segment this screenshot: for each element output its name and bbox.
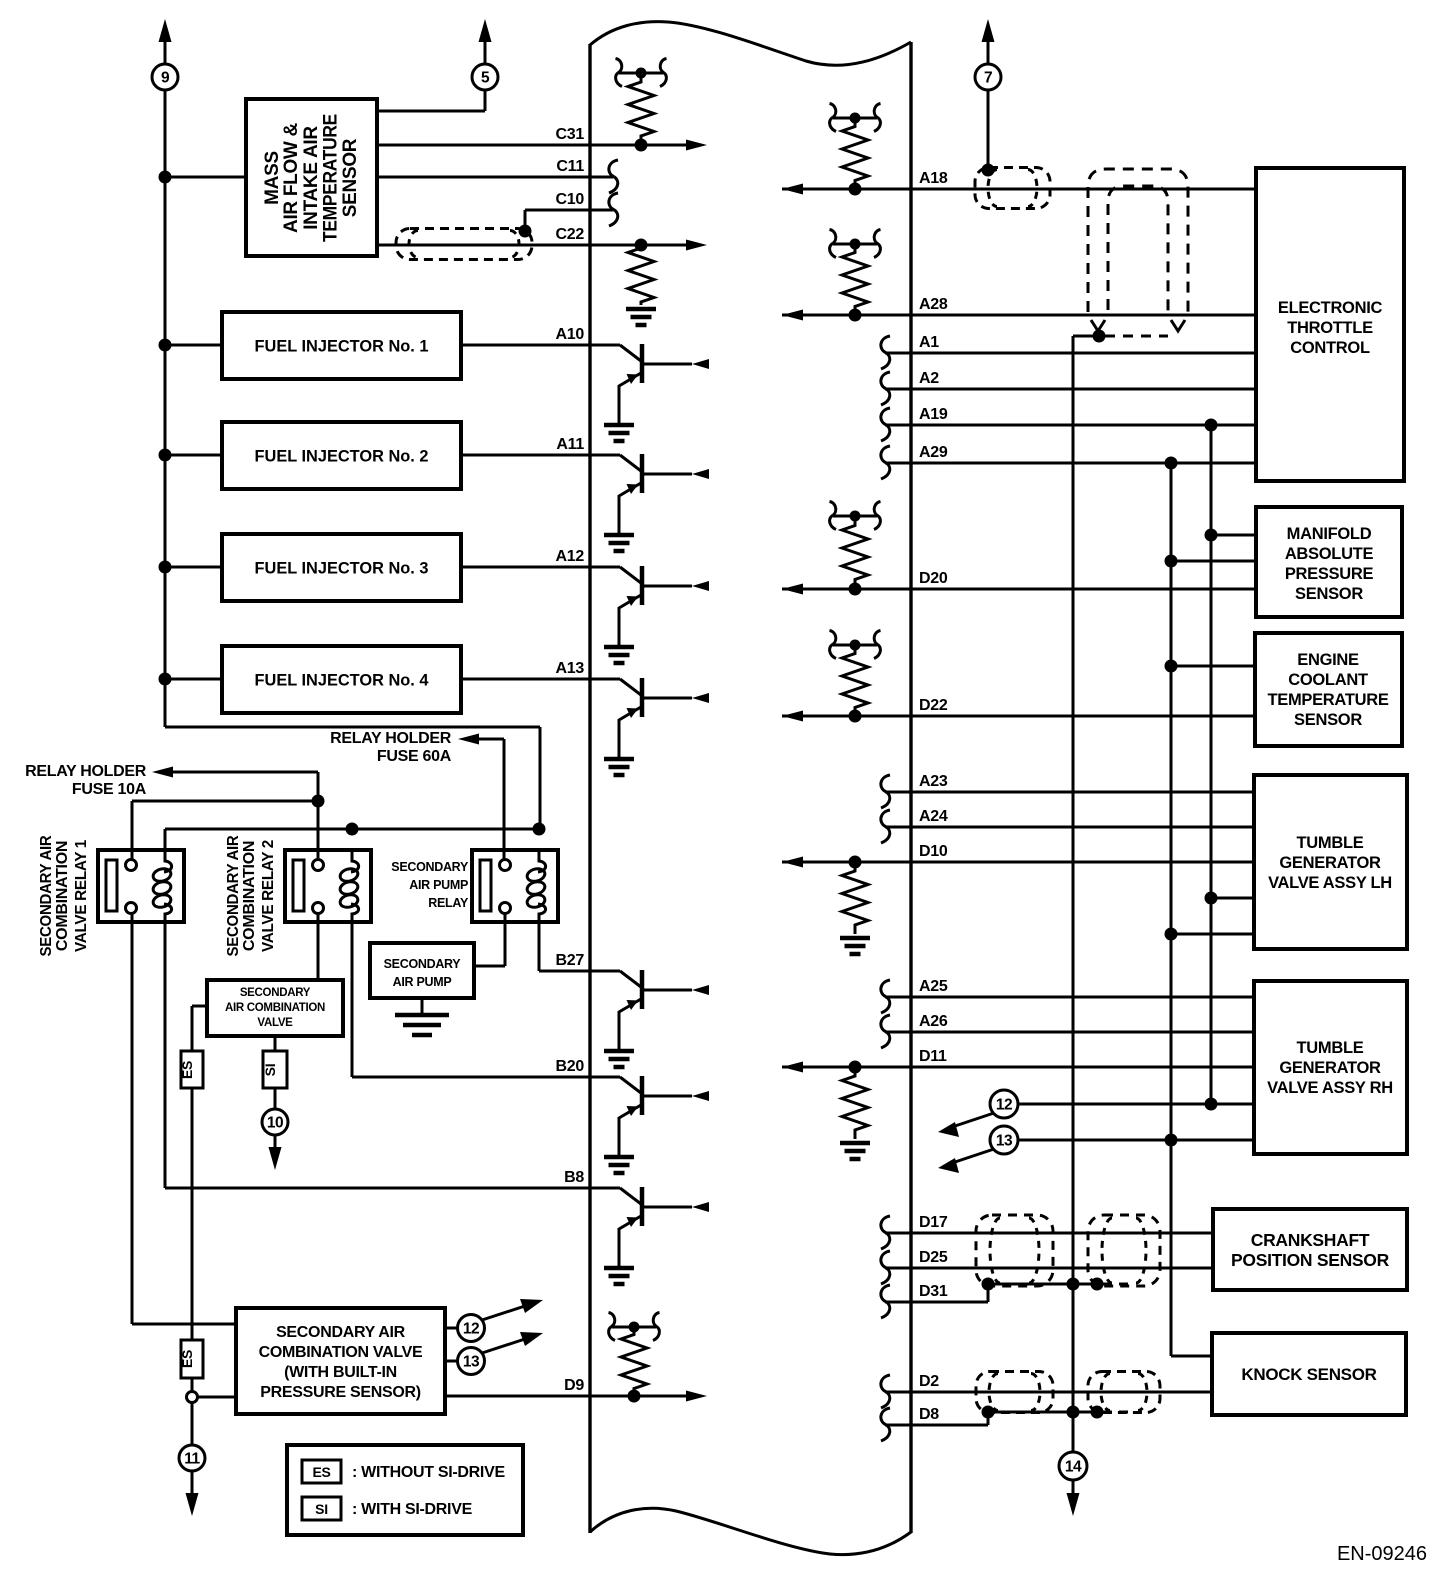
junction D20/resistor [849, 583, 862, 596]
svg-text:C11: C11 [556, 158, 584, 175]
svg-text:14: 14 [1065, 1459, 1082, 1476]
wire: ES chain down to second ES box [191, 1088, 194, 1340]
wire: bus to FUEL INJECTOR No. 3 [165, 566, 222, 569]
break squiggle A29 [881, 446, 890, 479]
FUEL INJECTOR No. 4 box [222, 646, 461, 713]
wire A10: FUEL INJECTOR No. 1 to ECM [461, 344, 590, 347]
circled 9 connector [152, 64, 178, 90]
svg-text:CONTROL: CONTROL [1290, 339, 1370, 357]
ECM torn outline: left edge [588, 44, 591, 1533]
wire: relay coil bus [165, 828, 539, 831]
circled 14 connector [1059, 1452, 1087, 1480]
svg-text:EN-09246: EN-09246 [1337, 1543, 1427, 1565]
svg-text:KNOCK SENSOR: KNOCK SENSOR [1241, 1365, 1376, 1384]
svg-text:C31: C31 [556, 126, 585, 143]
wire B27: pump relay coil to ECM [539, 970, 590, 973]
break squiggle A24 [881, 810, 890, 843]
svg-text:INTAKE AIR: INTAKE AIR [301, 126, 322, 230]
output transistor A11 in ECM [590, 454, 620, 457]
svg-text:A24: A24 [919, 808, 948, 825]
wire: ground bus to ECT sensor [1171, 665, 1255, 668]
circled 5 connector [472, 64, 498, 90]
svg-text:GENERATOR: GENERATOR [1279, 854, 1381, 872]
wire: MAF to circled 5 [377, 110, 485, 113]
svg-text:AIR PUMP: AIR PUMP [409, 878, 468, 892]
svg-text:FUEL INJECTOR No. 3: FUEL INJECTOR No. 3 [255, 560, 429, 578]
svg-text:ELECTRONIC: ELECTRONIC [1278, 299, 1383, 317]
long vertical ground wire to circled 14 [1072, 336, 1075, 1453]
internal node above C31 [619, 72, 663, 75]
svg-text:COOLANT: COOLANT [1288, 671, 1368, 689]
wire A11: FUEL INJECTOR No. 2 to ECM [461, 454, 590, 457]
svg-text:: WITH SI-DRIVE: : WITH SI-DRIVE [352, 1501, 473, 1518]
junction on bus / injector 3 feed [159, 561, 172, 574]
wire: pump relay coil low side down to B27 [538, 922, 541, 971]
junction on bus / injector 1 feed [159, 339, 172, 352]
electronic throttle control box [1256, 168, 1404, 481]
svg-text:A26: A26 [919, 1013, 948, 1030]
wire D11: ECM to TGV RH [782, 1066, 1254, 1069]
svg-text:SECONDARY AIR: SECONDARY AIR [38, 835, 55, 957]
arrow up to circled 5 [479, 19, 492, 42]
output transistor A10 in ECM [590, 344, 620, 347]
drain junction crank shield 2 [1091, 1278, 1104, 1291]
break squiggle A19 [881, 408, 890, 441]
break squiggle D8 [881, 1408, 890, 1441]
wire A29: ECM to electronic throttle control [885, 462, 1256, 465]
svg-text:D9: D9 [564, 1377, 584, 1394]
svg-text:FUEL INJECTOR No. 4: FUEL INJECTOR No. 4 [255, 672, 430, 690]
svg-text:SI: SI [262, 1064, 278, 1077]
dashed drain to right tube [1105, 335, 1168, 338]
svg-text:A19: A19 [919, 406, 948, 423]
wire: bus to MAF left [165, 176, 246, 179]
svg-text:TEMPERATURE: TEMPERATURE [321, 114, 342, 242]
arrow down from circled 11 [186, 1493, 199, 1516]
svg-text:SECONDARY: SECONDARY [240, 987, 311, 999]
wire D9: pressure sensor output to ECM [445, 1395, 694, 1398]
resistor pull-up on D9 [621, 1327, 647, 1396]
svg-text:D22: D22 [919, 697, 948, 714]
crankshaft position sensor box [1213, 1209, 1407, 1290]
svg-text:PRESSURE: PRESSURE [1285, 565, 1374, 583]
svg-text:12: 12 [996, 1097, 1012, 1114]
circled 7 connector [975, 64, 1001, 90]
junction on bus / injector 4 feed [159, 673, 172, 686]
svg-text:VALVE ASSY RH: VALVE ASSY RH [1267, 1079, 1393, 1097]
svg-text:AIR COMBINATION: AIR COMBINATION [225, 1002, 325, 1014]
FUEL INJECTOR No. 2 box [222, 422, 461, 489]
wire D22: ECM to ECT sensor [782, 715, 1255, 718]
break squiggle D31 [881, 1285, 890, 1318]
wire A28: ECM to electronic throttle control [782, 314, 1256, 317]
break squiggle A23 [881, 775, 890, 808]
circled 10 connector [262, 1109, 288, 1135]
wire: ground bus to TGV LH [1171, 933, 1254, 936]
svg-text:SENSOR: SENSOR [340, 138, 361, 217]
engine coolant temperature sensor box [1255, 633, 1402, 746]
svg-text:A11: A11 [556, 436, 584, 453]
ground below secondary air pump [395, 1013, 449, 1018]
wire: box to circled 13 [445, 1360, 458, 1363]
svg-text:(WITH BUILT-IN: (WITH BUILT-IN [284, 1364, 397, 1381]
shield around D17/D25 pair (right) [1088, 1215, 1160, 1286]
junction A18/resistor [849, 183, 862, 196]
wire A18: ECM to electronic throttle control [782, 188, 1256, 191]
svg-text:D20: D20 [919, 570, 948, 587]
svg-text:COMBINATION: COMBINATION [54, 841, 71, 951]
arrow left A28 [782, 310, 803, 321]
arrow from circled 13 (right) [952, 1149, 994, 1163]
break squiggle A1 [881, 336, 890, 369]
wire: bus to FUEL INJECTOR No. 1 [165, 344, 222, 347]
svg-text:FUSE 60A: FUSE 60A [377, 748, 452, 765]
wire A1: ECM to electronic throttle control [885, 352, 1256, 355]
svg-text:THROTTLE: THROTTLE [1287, 319, 1373, 337]
junction C31/resistor [635, 139, 648, 152]
ground below C22 resistor [626, 307, 656, 312]
internal node above A18 [833, 117, 877, 120]
arrow left D11 [782, 1062, 803, 1073]
break squiggle D2 [881, 1375, 890, 1408]
wire: box to circled 12 [445, 1327, 458, 1330]
arrow from circled 13 [482, 1338, 528, 1353]
tumble generator valve assy RH box [1254, 981, 1407, 1154]
svg-text:POSITION SENSOR: POSITION SENSOR [1231, 1250, 1390, 1270]
svg-text:D11: D11 [919, 1048, 947, 1065]
break squiggle D17 [881, 1216, 890, 1249]
secondary air combination valve relay 2 [285, 850, 371, 922]
svg-text:MASS: MASS [262, 151, 283, 205]
wire: bus to FUEL INJECTOR No. 2 [165, 454, 222, 457]
junction D22/resistor [849, 710, 862, 723]
svg-text:D2: D2 [919, 1373, 939, 1390]
wire A2: ECM to electronic throttle control [885, 388, 1256, 391]
svg-text:A28: A28 [919, 296, 948, 313]
resistor pull-up on D22 [842, 645, 868, 716]
svg-text:10: 10 [267, 1115, 283, 1132]
circled 13 connector (right) [990, 1126, 1018, 1154]
arrow right C22 [686, 240, 707, 251]
shield arrow V right [1171, 320, 1185, 331]
resistor D10 to ground [842, 862, 868, 934]
circled 12 connector (right) [990, 1090, 1018, 1118]
svg-text:CRANKSHAFT: CRANKSHAFT [1251, 1230, 1370, 1250]
svg-text:D10: D10 [919, 843, 948, 860]
wire: ES2 to node circle [191, 1378, 194, 1391]
arrow up to circled 9 [159, 19, 172, 42]
svg-text:SENSOR: SENSOR [1295, 585, 1363, 603]
junction D10/resistor [849, 856, 862, 869]
svg-text:TEMPERATURE: TEMPERATURE [1267, 691, 1388, 709]
svg-text:SECONDARY: SECONDARY [384, 957, 462, 971]
resistor pull-up on A28 [842, 244, 868, 315]
drain junction on crank shield 1 [982, 1278, 995, 1291]
internal node above D20 [833, 515, 877, 518]
legend box [287, 1445, 523, 1535]
wire D20: ECM to MAP sensor [782, 588, 1256, 591]
shield drain junction A18 [982, 164, 995, 177]
junction on bus / injector 2 feed [159, 449, 172, 462]
svg-text:ES: ES [179, 1350, 195, 1368]
junction A19 / supply bus [1205, 419, 1218, 432]
secondary air pump box [370, 943, 474, 998]
shield around A18 wire [975, 168, 1050, 209]
svg-text:5: 5 [481, 70, 490, 87]
legend ES symbol [302, 1460, 341, 1483]
svg-text:7: 7 [984, 70, 992, 87]
shield around A18/A28 pair (tall twin tube) [1088, 169, 1188, 313]
wire: SACV bottom to SI [274, 1036, 277, 1051]
wire A19: ECM to electronic throttle control [885, 424, 1256, 427]
internal node above D9 [612, 1326, 656, 1329]
svg-text:12: 12 [463, 1321, 479, 1338]
circled 11 connector [179, 1445, 205, 1471]
wire D8: shield drain for knock sensor [885, 1424, 988, 1427]
wire A13: FUEL INJECTOR No. 4 to ECM [461, 678, 590, 681]
wire A25: ECM to tumble generator valve RH [885, 996, 1254, 999]
wire: node to SACV(PS) box [198, 1396, 236, 1399]
tumble generator valve assy LH box [1254, 775, 1407, 949]
junction C22/resistor [635, 239, 648, 252]
svg-text:13: 13 [463, 1354, 480, 1371]
wire A26: ECM to tumble generator valve RH [885, 1031, 1254, 1034]
ECM torn outline: right edge [909, 42, 912, 1533]
arrow right C31 [686, 140, 707, 151]
svg-text:RELAY HOLDER: RELAY HOLDER [330, 730, 452, 747]
arrow up to circled 7 [982, 19, 995, 42]
svg-text:FUSE 10A: FUSE 10A [72, 781, 147, 798]
shield drain junction to ground wire [1093, 330, 1106, 343]
svg-text:ES: ES [312, 1464, 330, 1480]
wire D25: ECM to crankshaft position sensor [885, 1267, 1213, 1270]
output transistor B20 in ECM [590, 1076, 620, 1079]
wire C11: MAF to ECM internal break [377, 176, 613, 179]
ECM torn outline: top wavy edge [590, 22, 911, 66]
wire: relay1 switched output down-left to SACV(PS) box [131, 913, 134, 1324]
wire: relay1 coil low side down to B8 [164, 922, 167, 1188]
arrow to relay holder fuse 10A [152, 767, 173, 778]
wire D17: ECM to crankshaft position sensor [885, 1232, 1213, 1235]
svg-text:B20: B20 [556, 1058, 585, 1075]
junction drain / ground wire (crank) [1067, 1278, 1080, 1291]
svg-text:B8: B8 [564, 1169, 584, 1186]
circled 12 connector (left) [458, 1315, 485, 1342]
junction A28/resistor [849, 309, 862, 322]
wire C10: shield drain to internal break [525, 209, 613, 212]
arrow left D22 [782, 711, 803, 722]
drain junction on knock shield 1 [982, 1406, 995, 1419]
svg-text:COMBINATION: COMBINATION [241, 841, 258, 951]
svg-text:RELAY: RELAY [428, 896, 469, 910]
svg-text:VALVE: VALVE [257, 1017, 293, 1029]
junction D9/resistor [628, 1390, 641, 1403]
ground below D11 resistor [840, 1141, 870, 1146]
svg-text:9: 9 [161, 70, 170, 87]
wire: supply bus to TGV LH [1211, 897, 1254, 900]
svg-text:MANIFOLD: MANIFOLD [1287, 525, 1372, 543]
secondary air combination valve (with built-in pressure sensor) box [236, 1308, 445, 1414]
output transistor B27 in ECM [590, 970, 620, 973]
svg-text:SECONDARY AIR: SECONDARY AIR [276, 1324, 406, 1341]
shield around D17/D25 pair (left) [976, 1215, 1053, 1286]
svg-text:13: 13 [996, 1133, 1013, 1150]
arrow left D20 [782, 584, 803, 595]
svg-text:RELAY HOLDER: RELAY HOLDER [25, 763, 147, 780]
wire: circled 7 drop to A18 shield [987, 36, 990, 64]
resistor pull-up on A18 [842, 118, 868, 189]
junction supply bus end / TGV RH [1205, 1098, 1218, 1111]
svg-text:GENERATOR: GENERATOR [1279, 1059, 1381, 1077]
resistor C22 to ground [628, 245, 654, 305]
secondary air combination valve box [207, 980, 343, 1036]
shield around D2 wire (left) [976, 1372, 1053, 1413]
svg-text:: WITHOUT SI-DRIVE: : WITHOUT SI-DRIVE [352, 1464, 505, 1481]
svg-text:A25: A25 [919, 978, 948, 995]
shield drain junction C10 [519, 225, 532, 238]
svg-text:C10: C10 [556, 191, 585, 208]
wire: main left bus from circled 9 down and over to pump relay coil [164, 36, 167, 64]
resistor pull-up on C31 [628, 73, 654, 145]
wire: pump to ground [421, 998, 424, 1015]
arrow from circled 12 [482, 1305, 528, 1320]
svg-text:D25: D25 [919, 1249, 948, 1266]
break squiggle A2 [881, 372, 890, 405]
svg-text:VALVE RELAY 1: VALVE RELAY 1 [73, 840, 90, 952]
svg-text:ES: ES [179, 1061, 195, 1079]
wire: pump relay switched output to air pump [504, 913, 507, 966]
output transistor A12 in ECM [590, 566, 620, 569]
svg-text:VALVE RELAY 2: VALVE RELAY 2 [260, 840, 277, 952]
wire: ground bus to MAP sensor [1171, 560, 1256, 563]
arrow down from circled 10 [269, 1147, 282, 1170]
break squiggle C10 [609, 193, 618, 226]
wire B20: relay2 coil to ECM [352, 1076, 590, 1079]
secondary air combination valve relay 1 [98, 850, 184, 922]
svg-text:A2: A2 [919, 370, 939, 387]
wire D2: ECM to knock sensor [885, 1391, 1212, 1394]
svg-text:A13: A13 [556, 660, 585, 677]
break squiggle D25 [881, 1251, 890, 1284]
wire: bus to FUEL INJECTOR No. 4 [165, 678, 222, 681]
manifold absolute pressure sensor box [1256, 507, 1402, 617]
svg-text:A23: A23 [919, 773, 948, 790]
ground below D10 resistor [840, 936, 870, 941]
wire C22: MAF to ECM [377, 244, 694, 247]
junction drain / ground wire (knock) [1067, 1406, 1080, 1419]
svg-text:FUEL INJECTOR No. 2: FUEL INJECTOR No. 2 [255, 448, 429, 466]
svg-text:A12: A12 [556, 548, 585, 565]
svg-text:A29: A29 [919, 444, 948, 461]
svg-text:SI: SI [315, 1501, 328, 1517]
circled 13 connector (left) [458, 1348, 485, 1375]
wire D31: shield drain for crank sensor [885, 1301, 988, 1304]
drain junction knock shield 2 [1091, 1406, 1104, 1419]
junction fuse10A feed [312, 795, 325, 808]
shield around C22 wire [396, 229, 532, 260]
junction supply/TGV LH [1205, 892, 1218, 905]
svg-text:SECONDARY AIR: SECONDARY AIR [225, 835, 242, 957]
shield arrow V left [1091, 320, 1105, 331]
internal node above D22 [833, 644, 877, 647]
wire: SI to circled 10 [274, 1088, 277, 1109]
mass air flow & intake air temperature sensor box [246, 99, 377, 256]
svg-text:FUEL INJECTOR No. 1: FUEL INJECTOR No. 1 [255, 338, 429, 356]
junction A29 / ground bus [1165, 457, 1178, 470]
second ES box [181, 1340, 203, 1378]
junction ground/MAP [1165, 555, 1178, 568]
resistor pull-up on D20 [842, 516, 868, 589]
svg-text:ENGINE: ENGINE [1297, 651, 1359, 669]
output transistor B8 in ECM [590, 1187, 620, 1190]
svg-text:D31: D31 [919, 1283, 948, 1300]
legend SI symbol [302, 1497, 341, 1520]
arrow right D9 [686, 1391, 707, 1402]
svg-text:ABSOLUTE: ABSOLUTE [1285, 545, 1374, 563]
output transistor A13 in ECM [590, 678, 620, 681]
sensor supply bus vertical [1210, 425, 1213, 1104]
svg-text:VALVE ASSY LH: VALVE ASSY LH [1268, 874, 1392, 892]
svg-text:A10: A10 [556, 326, 585, 343]
wire D10: ECM to TGV LH [782, 861, 1254, 864]
wire: relay2 switched output to SACV [317, 913, 320, 980]
arrow to relay holder fuse 60A [458, 734, 479, 745]
svg-text:A18: A18 [919, 170, 948, 187]
wire A23: ECM to tumble generator valve LH [885, 791, 1254, 794]
svg-text:SECONDARY: SECONDARY [391, 860, 469, 874]
svg-text:TUMBLE: TUMBLE [1297, 1039, 1364, 1057]
SI box (with SI-drive path) [263, 1051, 287, 1088]
arrow from circled 12 (right) [952, 1113, 994, 1127]
wire: relay2 coil low side down to B20 [351, 922, 354, 1077]
svg-text:D8: D8 [919, 1406, 939, 1423]
svg-text:B27: B27 [556, 952, 585, 969]
svg-text:AIR FLOW &: AIR FLOW & [281, 122, 302, 233]
junction coil bus / pump relay coil [533, 823, 546, 836]
svg-text:COMBINATION VALVE: COMBINATION VALVE [259, 1344, 423, 1361]
arrow left D10 [782, 857, 803, 868]
sensor ground bus vertical down to knock sensor [1170, 463, 1173, 1356]
shield around D2 wire (right) [1088, 1372, 1160, 1413]
wire: SACV left to ES [192, 1005, 207, 1008]
svg-text:PRESSURE SENSOR): PRESSURE SENSOR) [260, 1384, 421, 1401]
wire C31: MAF to ECM [377, 144, 694, 147]
svg-text:D17: D17 [919, 1214, 948, 1231]
svg-text:TUMBLE: TUMBLE [1297, 834, 1364, 852]
junction supply/MAP [1205, 529, 1218, 542]
junction ground bus / TGV RH [1165, 1134, 1178, 1147]
resistor D11 to ground [842, 1067, 868, 1139]
arrow left A18 [782, 184, 803, 195]
internal node above A28 [833, 243, 877, 246]
ECM torn outline: bottom wavy edge [590, 1508, 911, 1554]
wire A12: FUEL INJECTOR No. 3 to ECM [461, 566, 590, 569]
break squiggle A26 [881, 1015, 890, 1048]
break squiggle C11 [609, 160, 618, 193]
knock sensor box [1212, 1333, 1406, 1415]
wire: shield drain to long ground wire [1073, 335, 1099, 338]
wire: supply bus to MAP sensor [1211, 534, 1256, 537]
arrow down from circled 14 [1067, 1493, 1080, 1516]
svg-text:11: 11 [184, 1451, 200, 1468]
junction ground/ECT [1165, 660, 1178, 673]
svg-text:A1: A1 [919, 334, 939, 351]
break squiggle A25 [881, 980, 890, 1013]
FUEL INJECTOR No. 1 box [222, 312, 461, 379]
wire: node down to circled 11 [191, 1403, 194, 1445]
junction D11/resistor [849, 1061, 862, 1074]
svg-text:SENSOR: SENSOR [1294, 711, 1362, 729]
